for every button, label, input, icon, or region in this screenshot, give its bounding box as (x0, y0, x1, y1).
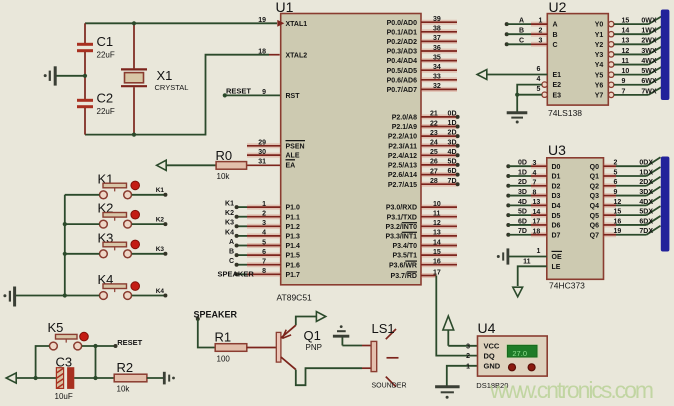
svg-text:ALE: ALE (286, 153, 300, 160)
svg-text:1: 1 (539, 18, 543, 25)
svg-text:Y5: Y5 (595, 72, 604, 79)
svg-text:11: 11 (433, 211, 441, 218)
U3 output Q5 pin 15 net 5DX to bus (604, 213, 617, 218)
svg-text:2WX: 2WX (641, 38, 657, 45)
power bar terminal at U3 OE (506, 248, 509, 264)
svg-text:K4: K4 (225, 229, 234, 236)
U2 pin E3 bubble (542, 92, 547, 97)
wire OE to U3 pin 1 (509, 256, 547, 258)
U1 pin 17 P3.7/RD (421, 273, 436, 278)
wire net 4D to U3 D4 pin 13 (506, 203, 510, 207)
U1 pin 1 P1.0 (247, 205, 281, 210)
svg-text:7: 7 (262, 259, 266, 266)
U1 pin 33 P0.6/AD6 (421, 77, 457, 82)
svg-text:R0: R0 (216, 148, 233, 163)
U1 pin 6 P1.5 (247, 253, 281, 258)
svg-text:12: 12 (622, 48, 630, 55)
U1 XTAL1 pin arrow (277, 20, 284, 27)
svg-text:D3: D3 (552, 193, 561, 200)
svg-text:K5: K5 (48, 320, 64, 335)
wire K3 right / net K3 (132, 253, 166, 255)
svg-text:C: C (519, 38, 524, 45)
svg-text:2D: 2D (448, 130, 457, 137)
U1 pin 13 P3.3/INT1 (421, 233, 457, 238)
bus (U3 outputs, blue) (661, 157, 670, 252)
U1 pin 28 P2.7/A15 net 7D (421, 182, 458, 187)
svg-text:10uF: 10uF (55, 392, 73, 401)
svg-text:Y7: Y7 (595, 92, 604, 99)
svg-text:18: 18 (533, 229, 541, 236)
wire LE to U3 pin 11 with down arrow (518, 266, 547, 286)
wire K5 right / net RESET (82, 345, 116, 347)
svg-text:P2.2/A10: P2.2/A10 (388, 134, 417, 141)
svg-text:23: 23 (430, 130, 438, 137)
U1 pin 7 P1.6 (247, 262, 281, 267)
svg-text:2D: 2D (518, 179, 527, 186)
svg-text:P0.4/AD4: P0.4/AD4 (387, 58, 417, 65)
svg-text:8: 8 (533, 189, 537, 196)
svg-text:5DX: 5DX (639, 209, 653, 216)
U1 pin 39 P0.0/AD0 (421, 20, 457, 25)
svg-text:GND: GND (484, 362, 501, 371)
U4 LCD display 27.0 (506, 344, 539, 358)
svg-text:D0: D0 (552, 164, 561, 171)
svg-text:P1.0: P1.0 (286, 205, 301, 212)
svg-text:C: C (553, 42, 558, 49)
U1 pin 23 P2.2/A10 net 2D (421, 134, 458, 139)
svg-text:22uF: 22uF (97, 107, 115, 116)
net arrow left (reset rail) (6, 373, 16, 383)
svg-text:4WX: 4WX (641, 58, 657, 65)
U1 pin 25 P2.4/A12 net 4D (421, 153, 458, 158)
svg-text:P2.3/A11: P2.3/A11 (388, 143, 417, 150)
svg-text:37: 37 (433, 35, 441, 42)
svg-text:B: B (553, 32, 558, 39)
svg-text:P1.7: P1.7 (286, 272, 301, 279)
svg-text:P3.7/RD: P3.7/RD (391, 273, 417, 280)
svg-text:6WX: 6WX (641, 78, 657, 85)
svg-text:C: C (229, 258, 234, 265)
svg-text:7WX: 7WX (641, 88, 657, 95)
svg-text:7: 7 (533, 180, 537, 187)
svg-text:1: 1 (262, 201, 266, 208)
svg-text:29: 29 (258, 140, 266, 147)
wire XTAL1 top net (85, 22, 277, 24)
wire C3 to R2 (74, 377, 114, 379)
wire Q1 collector to LS1 (296, 368, 362, 385)
svg-text:16: 16 (433, 259, 441, 266)
svg-text:OE: OE (552, 254, 562, 261)
junction node C1-C2-ground (83, 74, 87, 78)
svg-text:9: 9 (262, 89, 266, 96)
svg-text:Q6: Q6 (590, 223, 599, 230)
svg-text:14: 14 (533, 209, 541, 216)
svg-text:5: 5 (537, 86, 541, 93)
svg-text:B: B (229, 249, 234, 256)
wire net B to U2 pin 2 (505, 32, 509, 36)
svg-text:14: 14 (622, 28, 630, 35)
svg-text:P0.1/AD1: P0.1/AD1 (387, 29, 417, 36)
svg-text:Q3: Q3 (590, 193, 599, 200)
svg-text:P3.3/INT1: P3.3/INT1 (385, 234, 417, 241)
U3 output Q7 pin 19 net 7DX to bus (604, 232, 617, 237)
svg-text:0DX: 0DX (639, 160, 653, 167)
wire net B to U1 (237, 254, 247, 256)
wire K4 left to ground rail (65, 295, 100, 297)
wire net C to U1 (237, 264, 247, 266)
net arrow (EA pulldown, pointing left) (157, 160, 167, 170)
capacitor C2 (84, 76, 86, 99)
wire K1 right / net K1 (132, 194, 166, 196)
svg-text:Y6: Y6 (595, 82, 604, 89)
wire K1 left to ground rail (65, 194, 100, 196)
svg-text:LE: LE (552, 264, 561, 271)
svg-text:RESET: RESET (117, 338, 142, 347)
svg-text:EA: EA (286, 163, 296, 170)
svg-text:AT89C51: AT89C51 (277, 293, 313, 303)
svg-text:6: 6 (614, 179, 618, 186)
wire net K1 to U1 (237, 206, 247, 208)
svg-text:25: 25 (430, 149, 438, 156)
svg-text:38: 38 (433, 26, 441, 33)
svg-text:3D: 3D (448, 139, 457, 146)
wire net 5D to U3 D5 pin 14 (506, 213, 510, 217)
svg-text:0D: 0D (518, 160, 527, 167)
junction C3 bottom-left (34, 376, 38, 380)
svg-text:1D: 1D (448, 120, 457, 127)
svg-text:C1: C1 (97, 34, 114, 49)
svg-text:5: 5 (262, 239, 266, 246)
svg-text:4DX: 4DX (639, 199, 653, 206)
svg-text:10k: 10k (217, 172, 231, 181)
wire K3 left to ground rail (65, 253, 100, 255)
svg-text:P1.4: P1.4 (286, 243, 301, 250)
wire VCC to U4 pin 3 (448, 345, 477, 347)
U1 pin 16 P3.6/WR (421, 262, 457, 267)
ground (above LS1, inverted) (341, 337, 343, 346)
svg-text:4: 4 (262, 230, 266, 237)
svg-text:19: 19 (258, 17, 266, 24)
svg-text:P3.0/RXD: P3.0/RXD (386, 205, 417, 212)
svg-text:35: 35 (433, 54, 441, 61)
svg-text:Q5: Q5 (590, 213, 599, 220)
svg-text:11: 11 (523, 259, 531, 266)
U1 pin 27 P2.6/A14 net 6D (421, 172, 458, 177)
wire Q1 emitter to power arrow (296, 317, 316, 326)
svg-text:B: B (519, 28, 524, 35)
svg-text:1WX: 1WX (641, 28, 657, 35)
svg-text:Y0: Y0 (595, 22, 604, 29)
temperature sensor U4 box (DS18B20) (478, 336, 548, 376)
svg-text:4D: 4D (518, 199, 527, 206)
svg-text:P1.5: P1.5 (286, 253, 301, 260)
svg-text:6DX: 6DX (639, 218, 653, 225)
svg-text:34: 34 (433, 64, 441, 71)
svg-text:Q1: Q1 (304, 328, 321, 343)
svg-text:Q0: Q0 (590, 164, 599, 171)
U2 output Y1 pin 14 net 1WX to bus (609, 32, 614, 37)
svg-text:SPEAKER: SPEAKER (194, 310, 238, 320)
U1 PSEN overline (286, 140, 306, 142)
svg-text:5D: 5D (448, 159, 457, 166)
svg-text:74LS138: 74LS138 (548, 108, 582, 118)
svg-text:0D: 0D (448, 111, 457, 118)
svg-text:A: A (553, 22, 558, 29)
svg-text:26: 26 (430, 159, 438, 166)
U2 output Y3 pin 12 net 3WX to bus (609, 52, 614, 57)
U3 output Q4 pin 12 net 4DX to bus (604, 203, 617, 208)
U2 pin E2 bubble (542, 82, 547, 87)
svg-text:P1.6: P1.6 (286, 262, 301, 269)
wire net 2D to U3 D2 pin 7 (506, 184, 510, 188)
svg-text:Y2: Y2 (595, 42, 604, 49)
latch U3 box (74HC373) (547, 158, 604, 279)
U1 pin 37 P0.2/AD2 (421, 39, 457, 44)
svg-text:K4: K4 (156, 288, 165, 295)
junction node X1 / bottom wire (132, 133, 136, 137)
wire net K2 to U1 (237, 216, 247, 218)
wire net A to U1 (237, 245, 247, 247)
svg-text:Y4: Y4 (595, 62, 604, 69)
svg-text:3: 3 (539, 38, 543, 45)
U2 output Y0 pin 15 net 0WX to bus (609, 21, 614, 26)
svg-text:6D: 6D (448, 168, 457, 175)
svg-text:10k: 10k (117, 385, 131, 394)
svg-text:Q1: Q1 (590, 174, 599, 181)
svg-text:U1: U1 (276, 0, 294, 15)
svg-text:K2: K2 (225, 210, 234, 217)
wire net 0D to U3 D0 pin 3 (506, 164, 510, 168)
U1 pin 11 P3.1/TXD (421, 214, 457, 219)
svg-text:12: 12 (433, 220, 441, 227)
svg-text:1D: 1D (518, 169, 527, 176)
U1 EA overline (286, 159, 296, 161)
U1 pin 10 P3.0/RXD (421, 205, 457, 210)
svg-text:24: 24 (430, 140, 438, 147)
U1 pin 14 P3.4/T0 (421, 243, 457, 248)
capacitor C3 (polarized 10uF) (56, 368, 63, 389)
power terminal bar (right of R2) (163, 372, 166, 385)
svg-text:8: 8 (262, 268, 266, 275)
wire GND to U4 pin 1 (447, 366, 478, 386)
svg-text:R2: R2 (117, 360, 134, 375)
svg-text:30: 30 (258, 149, 266, 156)
svg-text:P1.1: P1.1 (286, 214, 301, 221)
U2 output Y4 pin 11 net 4WX to bus (609, 62, 614, 67)
crystal X1 (133, 23, 135, 68)
svg-text:P0.3/AD3: P0.3/AD3 (387, 49, 417, 56)
svg-text:14: 14 (433, 239, 441, 246)
svg-text:VCC: VCC (484, 342, 500, 351)
svg-text:Y3: Y3 (595, 52, 604, 59)
U2 output Y7 pin 7 net 7WX to bus (609, 92, 614, 97)
wire K2 right / net K2 (132, 223, 166, 225)
U1 pin 32 P0.7/AD7 (421, 87, 457, 92)
svg-text:3: 3 (262, 220, 266, 227)
svg-text:1: 1 (466, 363, 470, 370)
U1 pin 24 P2.3/A11 net 3D (421, 143, 458, 148)
svg-text:7: 7 (622, 88, 626, 95)
wire net 6D to U3 D6 pin 17 (506, 223, 510, 227)
svg-text:P2.1/A9: P2.1/A9 (392, 124, 417, 131)
svg-text:A: A (519, 18, 524, 25)
svg-text:K1: K1 (156, 187, 165, 194)
wire E2/E3 to ground (517, 85, 542, 95)
svg-text:2: 2 (262, 211, 266, 218)
U3 output Q2 pin 6 net 2DX to bus (604, 183, 617, 188)
svg-text:3WX: 3WX (641, 48, 657, 55)
U1 pin 36 P0.3/AD3 (421, 49, 457, 54)
svg-text:P1.3: P1.3 (286, 234, 301, 241)
svg-text:E1: E1 (553, 72, 562, 79)
wire K2 left to ground rail (65, 223, 100, 225)
svg-text:13: 13 (433, 230, 441, 237)
U1 pin 26 P2.5/A13 net 5D (421, 162, 458, 167)
power arrow (right) at Q1 emitter (316, 312, 325, 322)
resistor R2 (114, 374, 147, 382)
wire net 3D to U3 D3 pin 8 (506, 194, 510, 198)
svg-text:K3: K3 (225, 220, 234, 227)
svg-text:33: 33 (433, 74, 441, 81)
wire K5 left to bottom net (36, 346, 50, 378)
svg-text:D2: D2 (552, 183, 561, 190)
wire U2 E1 enable from arrow (477, 70, 487, 80)
ground (crystal circuit) (56, 75, 86, 77)
U1 pin 5 P1.4 (247, 243, 281, 248)
svg-text:6: 6 (262, 249, 266, 256)
svg-text:1: 1 (537, 248, 541, 255)
svg-text:2: 2 (614, 160, 618, 167)
U1 pin 34 P0.5/AD5 (421, 68, 457, 73)
svg-text:K3: K3 (156, 246, 165, 253)
svg-text:Q7: Q7 (590, 232, 599, 239)
bus (U2 outputs, blue) (661, 10, 670, 101)
svg-text:32: 32 (433, 83, 441, 90)
svg-text:17: 17 (433, 269, 441, 276)
U1 pin 38 P0.1/AD1 (421, 29, 457, 34)
wire net K4 to U1 (237, 235, 247, 237)
U1 pin 8 P1.7 (247, 272, 281, 277)
U1 pin 21 P2.0/A8 net 0D (421, 114, 458, 119)
op-amp U1 box (AT89C51 MCU) (281, 14, 421, 285)
svg-text:Q2: Q2 (590, 183, 599, 190)
wire R1 to Q1 base (247, 347, 276, 349)
svg-text:P0.2/AD2: P0.2/AD2 (387, 39, 417, 46)
svg-text:15: 15 (614, 209, 622, 216)
svg-text:12: 12 (614, 199, 622, 206)
U1 pin 3 P1.2 (247, 224, 281, 229)
svg-text:U2: U2 (549, 0, 567, 15)
svg-text:P2.5/A13: P2.5/A13 (388, 163, 417, 170)
svg-text:LS1: LS1 (372, 321, 395, 336)
svg-text:39: 39 (433, 16, 441, 23)
U3 output Q3 pin 9 net 3DX to bus (604, 193, 617, 198)
svg-text:SOUNDER: SOUNDER (372, 383, 407, 390)
svg-text:15: 15 (622, 18, 630, 25)
U1 pin 29 PSEN (247, 143, 281, 148)
svg-text:74HC373: 74HC373 (549, 281, 585, 291)
svg-text:10: 10 (622, 68, 630, 75)
U3 output Q6 pin 16 net 6DX to bus (604, 222, 617, 227)
svg-text:18: 18 (258, 49, 266, 56)
junction K5-right / C3 (93, 344, 97, 348)
svg-text:P3.1/TXD: P3.1/TXD (387, 214, 417, 221)
svg-text:K2: K2 (156, 217, 165, 224)
svg-text:27: 27 (430, 168, 438, 175)
svg-text:P3.2/INT0: P3.2/INT0 (385, 224, 417, 231)
svg-text:P1.2: P1.2 (286, 224, 301, 231)
U2 output Y2 pin 13 net 2WX to bus (609, 42, 614, 47)
svg-text:A: A (229, 239, 234, 246)
svg-text:0WX: 0WX (641, 18, 657, 25)
resistor R1 (215, 344, 247, 352)
svg-text:13: 13 (622, 38, 630, 45)
svg-text:5D: 5D (518, 209, 527, 216)
svg-text:P0.5/AD5: P0.5/AD5 (387, 68, 417, 75)
ground (buttons) (15, 295, 65, 297)
wire buttons ground rail vertical (64, 195, 66, 296)
wire EA to R0 (166, 164, 216, 166)
svg-text:3DX: 3DX (639, 189, 653, 196)
svg-text:22: 22 (430, 120, 438, 127)
power arrow (VCC) above U4 (443, 316, 454, 330)
svg-text:E2: E2 (553, 82, 562, 89)
svg-text:2: 2 (466, 353, 470, 360)
svg-text:P3.6/WR: P3.6/WR (389, 262, 417, 269)
svg-text:5: 5 (614, 169, 618, 176)
svg-text:9: 9 (622, 78, 626, 85)
svg-text:4: 4 (537, 76, 541, 83)
svg-text:7D: 7D (518, 228, 527, 235)
svg-text:Q4: Q4 (590, 203, 599, 210)
wire bottom net (XTAL2) (85, 55, 269, 135)
svg-text:16: 16 (614, 218, 622, 225)
U3 output Q1 pin 5 net 1DX to bus (604, 173, 617, 178)
svg-text:P0.7/AD7: P0.7/AD7 (387, 87, 417, 94)
wire R2 to power bar (147, 377, 164, 379)
svg-text:RESET: RESET (226, 86, 251, 95)
svg-text:6: 6 (537, 66, 541, 73)
svg-text:U4: U4 (478, 320, 496, 336)
svg-text:K1: K1 (225, 201, 234, 208)
svg-text:27.0: 27.0 (512, 349, 527, 358)
U2 output Y6 pin 9 net 6WX to bus (609, 82, 614, 87)
svg-text:P0.6/AD6: P0.6/AD6 (387, 77, 417, 84)
svg-text:PSEN: PSEN (286, 143, 305, 150)
svg-text:17: 17 (533, 219, 541, 226)
transistor Q1 (PNP) (276, 332, 281, 362)
wire net 7D to U3 D7 pin 18 (506, 233, 510, 237)
svg-text:100: 100 (217, 355, 231, 364)
svg-text:E3: E3 (553, 92, 562, 99)
svg-text:P0.0/AD0: P0.0/AD0 (387, 20, 417, 27)
U1 pin 15 P3.5/T1 (421, 253, 457, 258)
svg-text:10: 10 (433, 201, 441, 208)
U1 pin 22 P2.1/A9 net 1D (421, 124, 458, 129)
U1 pin 12 P3.2/INT0 (421, 224, 457, 229)
svg-text:6D: 6D (518, 218, 527, 225)
svg-text:21: 21 (430, 111, 438, 118)
wire net A to U2 pin 1 (505, 22, 509, 26)
svg-text:D7: D7 (552, 232, 561, 239)
net SPEAKER label (196, 317, 200, 321)
svg-text:X1: X1 (157, 68, 173, 83)
resistor R0 (247, 164, 281, 166)
svg-text:5WX: 5WX (641, 68, 657, 75)
wire net C to U2 pin 3 (505, 42, 509, 46)
svg-text:Y1: Y1 (595, 32, 604, 39)
ground (U2 enables) (507, 111, 528, 114)
